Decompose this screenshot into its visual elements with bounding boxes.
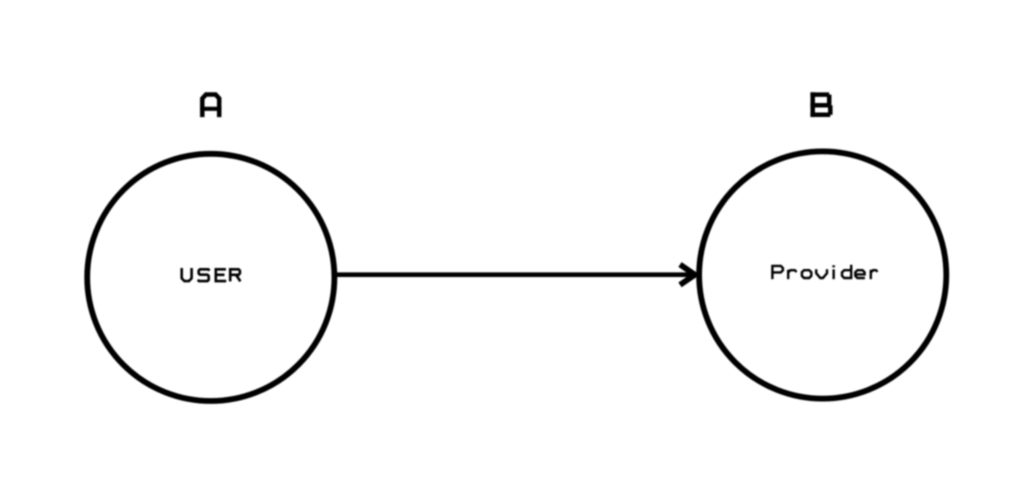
node A circle (USER) (87, 154, 334, 401)
e (855, 270, 865, 278)
arrowhead at B (680, 265, 695, 285)
U (182, 268, 192, 281)
label A above node A (200, 95, 221, 118)
E (216, 269, 226, 281)
R (230, 269, 240, 281)
i (832, 269, 834, 279)
d (842, 265, 851, 279)
P (772, 266, 783, 279)
o (802, 270, 811, 278)
wire: arrow shaft from A to B (337, 272, 691, 277)
text Provider inside node B (772, 265, 877, 279)
node B circle (Provider) (699, 151, 946, 398)
r (788, 270, 796, 279)
S (198, 269, 210, 281)
text USER inside node A (182, 268, 241, 281)
label B above node B (810, 92, 830, 117)
r (last) (871, 270, 878, 279)
v (816, 269, 827, 278)
